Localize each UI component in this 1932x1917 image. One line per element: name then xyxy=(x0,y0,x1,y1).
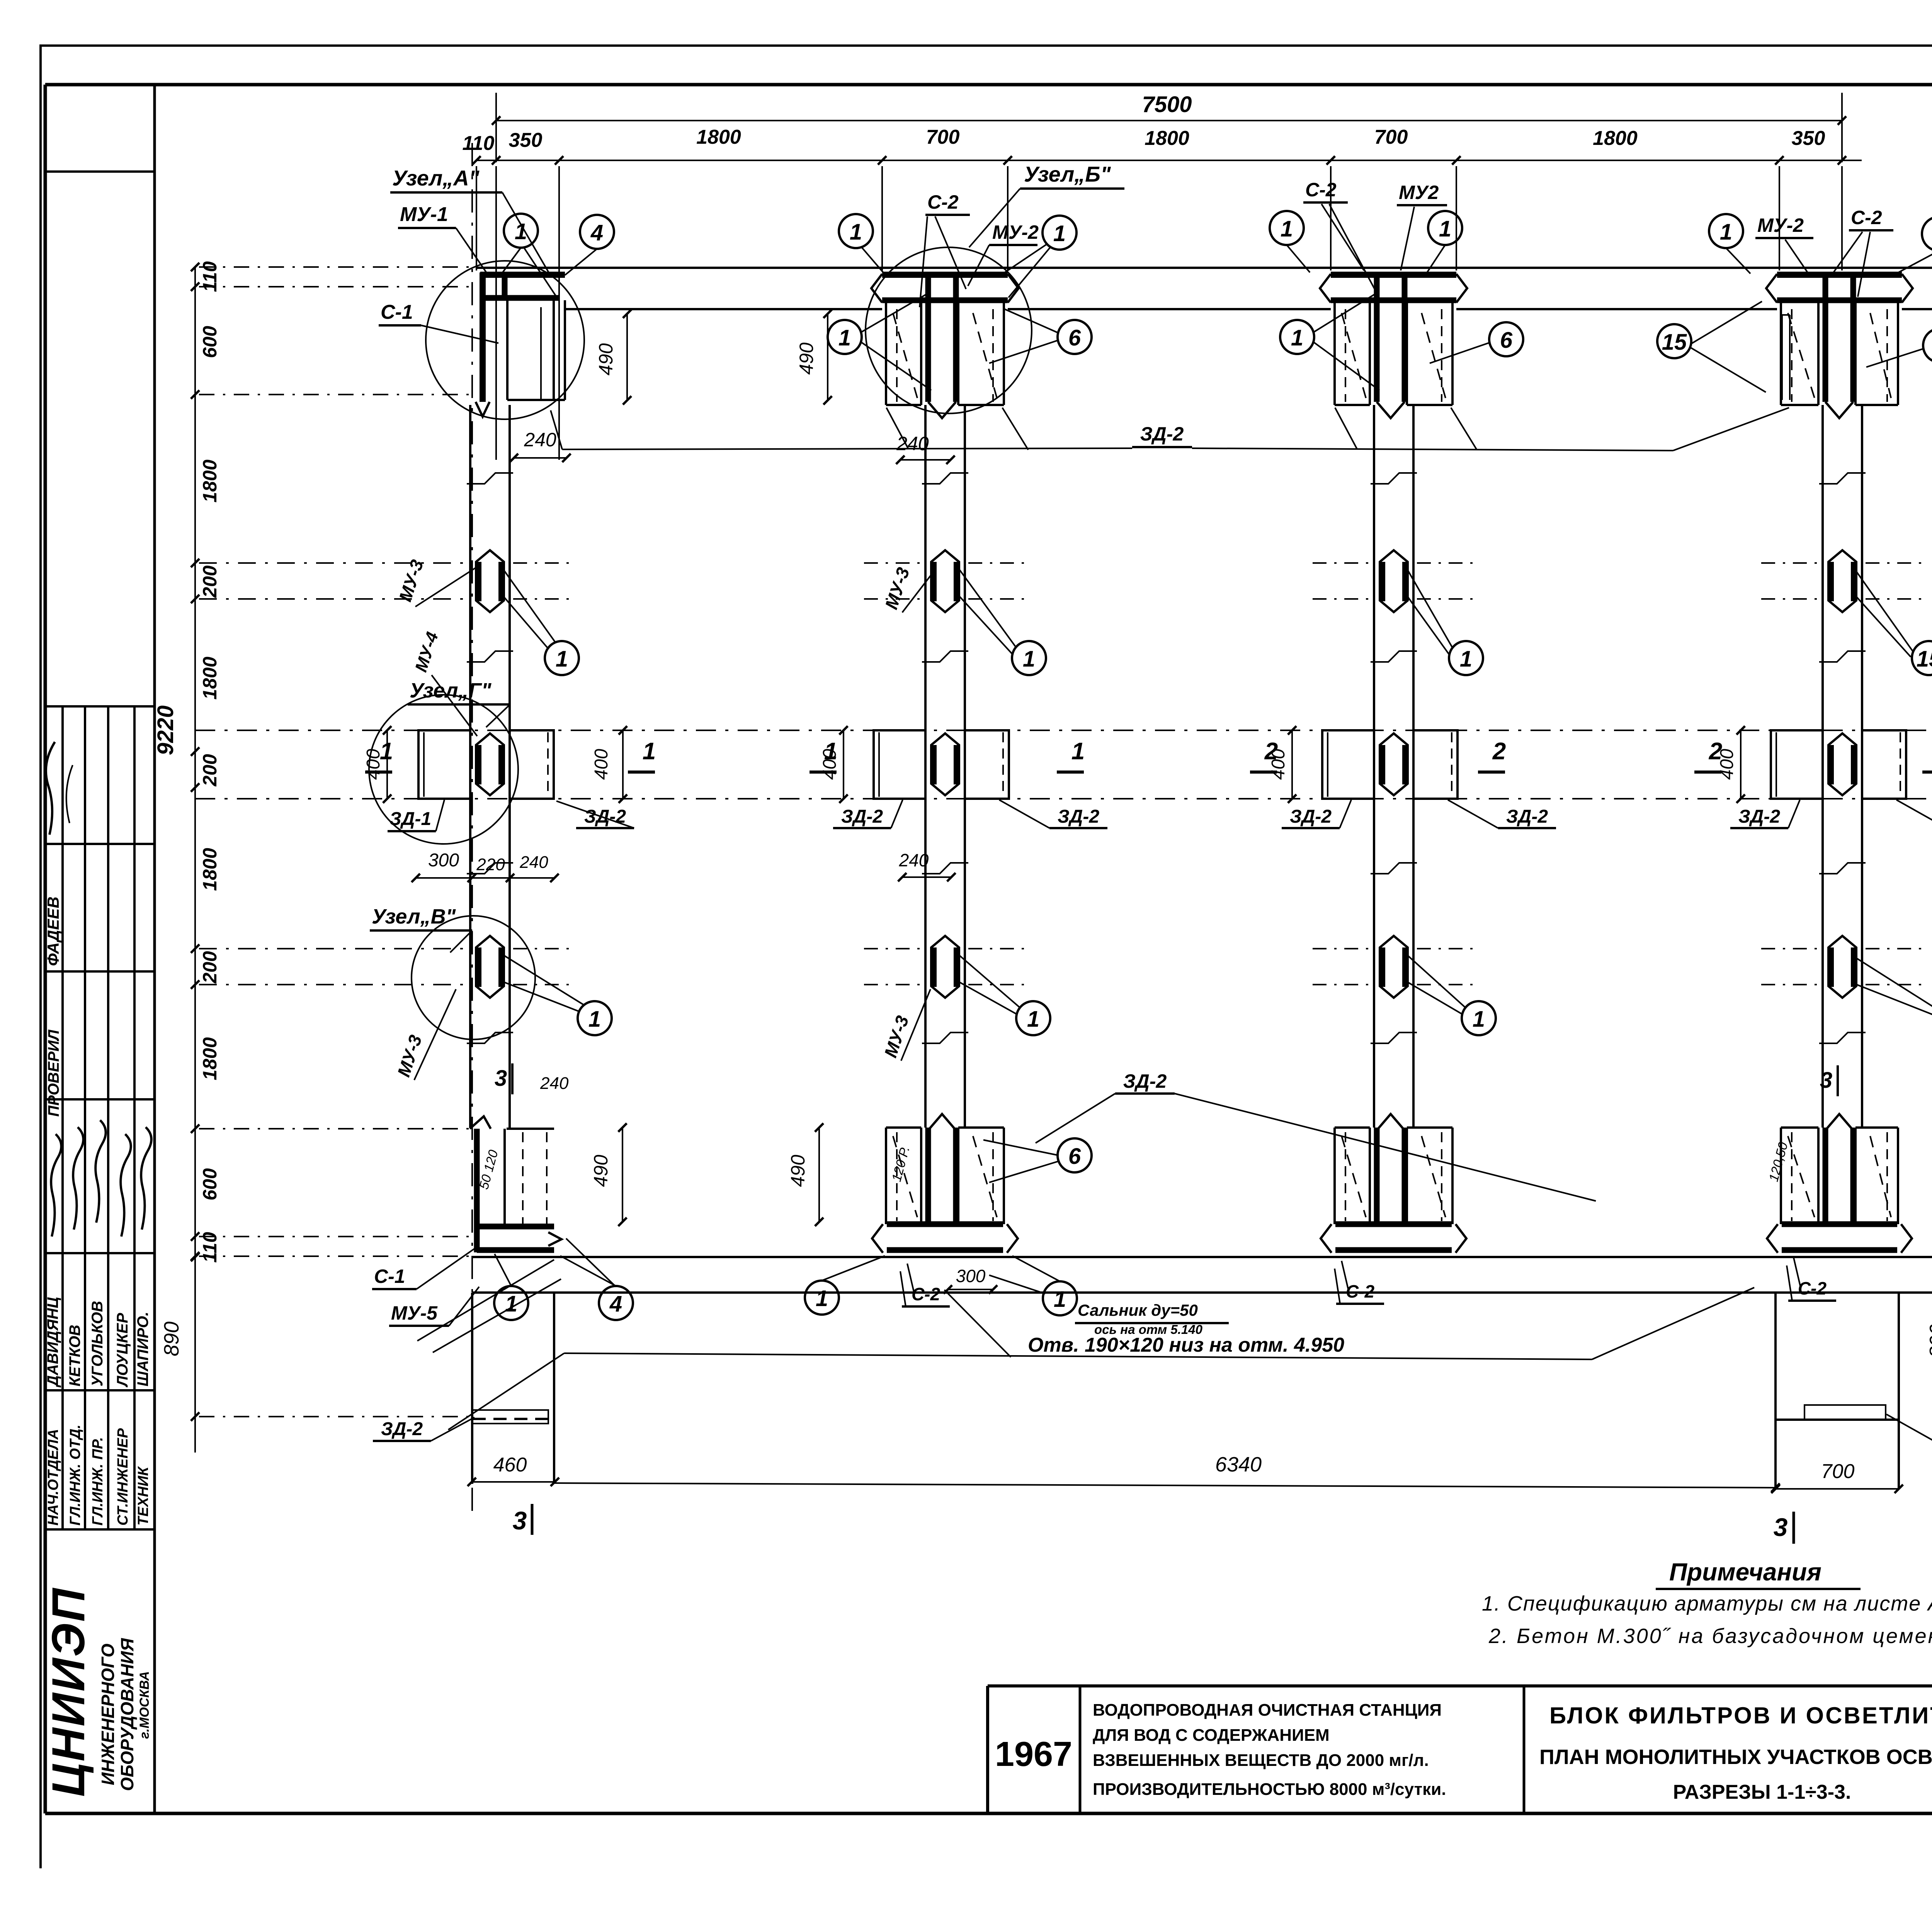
svg-text:ЗД-2: ЗД-2 xyxy=(841,806,883,827)
C-2 label wall4 xyxy=(1833,207,1893,297)
svg-text:ВЗВЕШЕННЫХ ВЕЩЕСТВ ДО 2000 мг: ВЗВЕШЕННЫХ ВЕЩЕСТВ ДО 2000 мг/л. xyxy=(1093,1751,1429,1770)
svg-text:1: 1 xyxy=(824,738,837,765)
svg-text:4: 4 xyxy=(609,1291,622,1317)
svg-text:Узел„А": Узел„А" xyxy=(392,166,480,190)
callout circle 1 xyxy=(545,641,579,675)
svg-text:С-2: С-2 xyxy=(927,191,959,213)
callout circle 1 xyxy=(1012,641,1046,675)
svg-text:3: 3 xyxy=(495,1066,507,1091)
svg-text:ГЛ.ИНЖ. ПР.: ГЛ.ИНЖ. ПР. xyxy=(90,1437,106,1526)
svg-text:1. Спецификацию арматуры с: 1. Спецификацию арматуры см на листе АС-… xyxy=(1482,1592,1932,1615)
dimension 300 220 240 wall1 mid xyxy=(412,850,559,882)
svg-text:4: 4 xyxy=(590,220,603,245)
svg-text:ЗД-2: ЗД-2 xyxy=(1738,806,1780,827)
uzel B label xyxy=(969,162,1124,247)
svg-text:490: 490 xyxy=(787,1155,809,1187)
C-2 label wall3 xyxy=(1303,179,1378,294)
svg-text:ПРОВЕРИЛ: ПРОВЕРИЛ xyxy=(45,1029,62,1117)
C-2 label wall2 xyxy=(920,191,970,307)
svg-text:ЗД-2: ЗД-2 xyxy=(381,1419,423,1439)
diamond nodes row 1 xyxy=(476,550,1856,612)
wall 3 bottom head detail xyxy=(1321,1114,1466,1253)
dimension 6340 xyxy=(555,1453,1780,1492)
left strip signature table xyxy=(45,706,155,1529)
wall 4 head inner plate xyxy=(1782,315,1790,400)
MU-3 label wall1 row2 xyxy=(393,989,456,1080)
svg-text:Узел„Г": Узел„Г" xyxy=(410,679,492,702)
svg-text:2. Бетон М.300˝ на базуса: 2. Бетон М.300˝ на базусадочном цементе xyxy=(1488,1624,1932,1648)
wall 1 top head detail MU-1 xyxy=(476,272,565,417)
C-2 labels bottom heads xyxy=(900,1258,1836,1306)
MU-2 label wall3 xyxy=(1397,182,1447,270)
MU-3 label wall2 row1 xyxy=(881,565,930,612)
svg-text:6: 6 xyxy=(1500,328,1513,353)
svg-text:1: 1 xyxy=(1054,1287,1066,1312)
small 120 50 labels bottom heads xyxy=(476,1141,1791,1191)
svg-text:890: 890 xyxy=(1926,1324,1932,1358)
svg-text:1: 1 xyxy=(850,219,862,245)
notes primechaniya xyxy=(1482,1558,1932,1648)
svg-text:ГЛ.ИНЖ. ОТД.: ГЛ.ИНЖ. ОТД. xyxy=(67,1425,83,1526)
long leader lines bottom xyxy=(448,1288,1754,1430)
svg-text:1: 1 xyxy=(1053,221,1066,246)
svg-text:240: 240 xyxy=(524,429,556,451)
second row leaders xyxy=(861,294,1924,392)
callout circle 15 xyxy=(1657,324,1691,358)
svg-text:ВОДОПРОВОДНАЯ ОЧИСТНАЯ СТАНЦИЯ: ВОДОПРОВОДНАЯ ОЧИСТНАЯ СТАНЦИЯ xyxy=(1093,1701,1442,1720)
svg-text:Отв. 190×120 низ на отм. 4.9: Отв. 190×120 низ на отм. 4.950 xyxy=(1028,1334,1344,1356)
otverstie note xyxy=(1028,1334,1344,1356)
ZD-1 label xyxy=(388,800,444,831)
ZD-2 label bottom wall4 xyxy=(1886,1414,1932,1452)
callout circle 1 xyxy=(1922,217,1932,251)
wall 3 top head detail xyxy=(1320,274,1467,418)
callout circle 1 xyxy=(578,1001,612,1035)
svg-text:110: 110 xyxy=(463,132,495,155)
wall 4 bottom head detail xyxy=(1767,1114,1912,1253)
dimension 460 xyxy=(468,1454,559,1486)
dimension 300 wall2 bottom xyxy=(944,1266,997,1294)
dimension 7500 overall xyxy=(492,92,1846,162)
MU-5 label bottom xyxy=(389,1287,479,1326)
callout circle 1 xyxy=(1709,214,1743,248)
svg-text:1800: 1800 xyxy=(1145,127,1189,150)
svg-text:350: 350 xyxy=(509,129,543,151)
svg-text:300: 300 xyxy=(428,850,459,871)
wall break symbols xyxy=(467,473,1866,1043)
svg-text:БЛОК ФИЛЬТРОВ И ОСВЕТЛИТЕЛЕЙ.: БЛОК ФИЛЬТРОВ И ОСВЕТЛИТЕЛЕЙ. xyxy=(1549,1703,1932,1728)
left strip institute cell CNIIEP xyxy=(43,1587,152,1797)
callout circle 1 xyxy=(1270,211,1304,245)
svg-text:350: 350 xyxy=(1792,127,1825,150)
svg-text:490: 490 xyxy=(590,1155,612,1187)
top segment dimension chain 110-350-1800-700-1800-700-1800-350 xyxy=(463,126,1862,460)
svg-text:ЗД-2: ЗД-2 xyxy=(1123,1070,1167,1092)
svg-text:ФАДЕЕВ: ФАДЕЕВ xyxy=(44,896,62,966)
uzel G circle wall1 mid xyxy=(369,695,518,844)
svg-text:ТЕХНИК: ТЕХНИК xyxy=(135,1466,151,1526)
svg-text:200: 200 xyxy=(199,951,221,984)
svg-text:1: 1 xyxy=(380,738,393,765)
svg-text:С-2: С-2 xyxy=(1346,1281,1375,1301)
svg-text:ЗД-2: ЗД-2 xyxy=(1506,806,1548,827)
svg-text:2: 2 xyxy=(1709,738,1722,765)
callout circle 1 xyxy=(1016,1001,1050,1035)
svg-text:ЗД-1: ЗД-1 xyxy=(389,809,431,829)
svg-text:1: 1 xyxy=(556,646,568,672)
svg-text:1: 1 xyxy=(1027,1007,1039,1032)
svg-text:240: 240 xyxy=(519,853,548,872)
svg-text:НАЧ.ОТДЕЛА: НАЧ.ОТДЕЛА xyxy=(45,1429,61,1526)
dimension 240 below wall1 head xyxy=(510,429,571,462)
svg-text:МУ2: МУ2 xyxy=(1399,182,1439,203)
callout circle 1 xyxy=(494,1286,528,1320)
svg-text:МУ-2: МУ-2 xyxy=(992,221,1039,243)
dimension chain 9220 left xyxy=(153,261,221,1453)
svg-text:Узел„В": Узел„В" xyxy=(372,905,456,928)
top row leaders xyxy=(502,243,1932,298)
svg-text:Примечания: Примечания xyxy=(1669,1558,1821,1586)
callout circle 1 xyxy=(1043,1281,1077,1315)
C-1 label bottom xyxy=(372,1248,475,1289)
salnik note xyxy=(1075,1301,1229,1337)
svg-text:1: 1 xyxy=(838,325,851,350)
svg-text:ОБОРУДОВАНИЯ: ОБОРУДОВАНИЯ xyxy=(117,1638,137,1791)
MU-3 label wall2 row2 xyxy=(880,989,930,1061)
svg-text:ЗД-2: ЗД-2 xyxy=(1290,806,1332,827)
svg-text:ПЛАН МОНОЛИТНЫХ УЧАСТКОВ ОСВЕТ: ПЛАН МОНОЛИТНЫХ УЧАСТКОВ ОСВЕТЛИТЕЛЕЙ xyxy=(1539,1745,1932,1769)
dimension 240 below wall1 mid xyxy=(514,867,566,878)
outer scan border top xyxy=(41,44,1932,47)
right edge 890 dim xyxy=(1926,1210,1932,1420)
MU-2 label wall2 xyxy=(968,221,1039,286)
svg-text:6340: 6340 xyxy=(1215,1453,1262,1476)
svg-text:1: 1 xyxy=(816,1286,828,1311)
callout circle 1 xyxy=(805,1281,839,1315)
svg-text:МУ-1: МУ-1 xyxy=(400,203,448,226)
row dashes around diamonds xyxy=(513,563,1923,985)
wall 1 bottom head detail MU-5 xyxy=(470,1116,561,1252)
title block project description xyxy=(1093,1701,1446,1799)
uzel V label xyxy=(370,905,472,953)
svg-text:ДАВИДЯНЦ: ДАВИДЯНЦ xyxy=(44,1297,61,1388)
callout circle 6 xyxy=(1058,320,1092,354)
svg-text:1: 1 xyxy=(1720,219,1732,245)
C-1 label top xyxy=(379,301,498,343)
dimension 490 bottom wall1 xyxy=(590,1123,627,1226)
svg-text:3: 3 xyxy=(513,1506,527,1535)
svg-text:ИНЖЕНЕРНОГО: ИНЖЕНЕРНОГО xyxy=(98,1643,118,1785)
dimension 490 top wall1 xyxy=(595,310,631,405)
section mark 3 bottom mid xyxy=(1774,1512,1794,1544)
svg-text:3: 3 xyxy=(1774,1513,1788,1541)
svg-text:6: 6 xyxy=(1068,325,1081,350)
callout circle 4 xyxy=(599,1286,633,1320)
wall 1 uzel A circle xyxy=(426,261,584,419)
svg-text:1800: 1800 xyxy=(199,459,221,502)
dimension 490 top wall2 xyxy=(796,310,832,405)
wall 4 top head detail xyxy=(1766,274,1913,418)
section mark 3 top near wall1 xyxy=(495,1063,569,1094)
svg-text:1800: 1800 xyxy=(1593,127,1638,150)
dimension 490 bottom wall2 xyxy=(787,1123,823,1226)
wall vertical lines with breaks xyxy=(470,405,1862,1128)
svg-text:15: 15 xyxy=(1917,646,1932,672)
dimension 700 xyxy=(1771,1460,1903,1493)
callout circle 6 xyxy=(1058,1138,1092,1172)
top beam inner edge segments xyxy=(565,308,1932,310)
svg-text:600: 600 xyxy=(199,1168,221,1201)
diagonal leaders from wall1 bottom to label area xyxy=(417,1260,561,1352)
ZD-2 labels mid row xyxy=(556,800,1932,828)
left chain extension dashes xyxy=(199,267,469,1417)
svg-text:1800: 1800 xyxy=(199,657,221,699)
MU-1 label xyxy=(398,203,488,274)
svg-text:С-2: С-2 xyxy=(1305,179,1337,201)
svg-text:Сальник ду=50: Сальник ду=50 xyxy=(1078,1301,1198,1319)
callout circle 1 xyxy=(839,214,873,248)
svg-text:ЗД-2: ЗД-2 xyxy=(1058,806,1099,827)
svg-text:9220: 9220 xyxy=(153,705,178,755)
title block frame xyxy=(988,1686,1932,1813)
svg-text:890: 890 xyxy=(160,1322,183,1356)
svg-text:1800: 1800 xyxy=(199,848,221,891)
callout circle 6 xyxy=(1489,322,1523,356)
callout circle 15 xyxy=(1912,641,1932,675)
svg-text:С-2: С-2 xyxy=(1851,207,1882,228)
svg-text:1: 1 xyxy=(1439,216,1451,242)
callout circle 4 xyxy=(580,215,614,249)
ZD-2 label bottom wall1 xyxy=(373,1417,474,1441)
svg-text:2: 2 xyxy=(1264,738,1278,765)
svg-text:ЗД-2: ЗД-2 xyxy=(1140,423,1184,445)
svg-text:1: 1 xyxy=(643,738,656,765)
uzel V circle wall1 row2 xyxy=(412,916,535,1039)
wall 1 lower stub 460 wide xyxy=(472,1293,554,1484)
MU-3 label wall1 row1 xyxy=(395,557,475,607)
bottom beam upper edge xyxy=(472,1256,1932,1258)
ZD-2 label top beam xyxy=(551,408,1789,451)
svg-text:1800: 1800 xyxy=(696,126,741,148)
left strip top cell line xyxy=(45,170,155,173)
callout circle 1 xyxy=(1280,320,1314,354)
left title strip divider xyxy=(153,85,156,1813)
svg-text:С-1: С-1 xyxy=(381,301,413,323)
svg-text:ПРОИЗВОДИТЕЛЬНОСТЬЮ 8000 м³/су: ПРОИЗВОДИТЕЛЬНОСТЬЮ 8000 м³/сутки. xyxy=(1093,1780,1446,1799)
svg-text:200: 200 xyxy=(199,754,221,787)
bottom beam lower edge xyxy=(472,1291,1932,1294)
svg-text:С-2: С-2 xyxy=(912,1284,940,1304)
title block sheet title xyxy=(1539,1703,1932,1803)
left strip signatures scribble xyxy=(46,742,151,1237)
top beam outer edge xyxy=(476,267,1932,269)
dimension 400 labels mid row xyxy=(363,726,1745,803)
svg-text:г.МОСКВА: г.МОСКВА xyxy=(137,1671,152,1739)
callout circle 1 xyxy=(1043,216,1077,250)
svg-text:Узел„Б": Узел„Б" xyxy=(1024,162,1111,186)
dimension 240 wall2 mid xyxy=(898,850,956,881)
svg-text:1: 1 xyxy=(588,1007,601,1032)
svg-text:700: 700 xyxy=(1821,1460,1855,1483)
section mark 3 bottom left xyxy=(513,1504,532,1535)
dimension 240 below wall2 head xyxy=(896,433,955,464)
MU-2 label wall4 xyxy=(1755,214,1813,274)
wall 2 top head detail xyxy=(871,274,1019,418)
mid row axis dashed lines xyxy=(195,730,1932,731)
svg-text:1: 1 xyxy=(515,219,527,244)
svg-text:15: 15 xyxy=(1662,330,1687,355)
MU-4 label xyxy=(412,630,477,736)
svg-text:2: 2 xyxy=(1492,738,1506,765)
svg-text:ШАПИРО.: ШАПИРО. xyxy=(134,1312,151,1387)
svg-text:1: 1 xyxy=(505,1291,517,1317)
left strip rotated headers xyxy=(44,896,151,1526)
svg-text:1967: 1967 xyxy=(995,1735,1072,1774)
svg-text:7500: 7500 xyxy=(1142,92,1192,117)
svg-text:240: 240 xyxy=(540,1074,569,1093)
svg-text:С-1: С-1 xyxy=(374,1266,405,1287)
svg-text:240: 240 xyxy=(899,850,929,870)
svg-text:460: 460 xyxy=(493,1454,527,1476)
svg-text:490: 490 xyxy=(595,343,617,376)
svg-text:3: 3 xyxy=(1820,1068,1832,1093)
row1 leaders xyxy=(502,568,1913,657)
section mark 3 top near wall4 xyxy=(1820,1065,1838,1096)
ZD-2 label bottom beam xyxy=(1036,1070,1596,1201)
svg-text:700: 700 xyxy=(1374,126,1408,148)
outer scan border left xyxy=(39,44,42,1868)
bottom row leaders xyxy=(495,1238,1060,1294)
callout circle 1 xyxy=(1428,211,1462,245)
svg-text:200: 200 xyxy=(199,565,221,598)
svg-text:700: 700 xyxy=(926,126,960,148)
svg-text:1: 1 xyxy=(1281,216,1293,242)
mid row flanges and diamonds xyxy=(418,730,554,799)
svg-text:490: 490 xyxy=(796,342,817,375)
row2 leaders xyxy=(502,954,1932,1017)
svg-text:600: 600 xyxy=(199,326,221,358)
svg-text:СТ.ИНЖЕНЕР: СТ.ИНЖЕНЕР xyxy=(115,1428,131,1526)
svg-text:1: 1 xyxy=(1460,646,1472,672)
svg-text:МУ-2: МУ-2 xyxy=(1757,214,1804,236)
callout circle 6 xyxy=(1923,328,1932,362)
svg-text:УГОЛЬКОВ: УГОЛЬКОВ xyxy=(89,1301,106,1386)
svg-text:1: 1 xyxy=(1291,325,1303,350)
svg-text:220: 220 xyxy=(476,855,505,874)
axis dash-dot vertical wall 1 xyxy=(471,143,473,1519)
svg-text:6: 6 xyxy=(1068,1144,1081,1169)
svg-text:ДЛЯ ВОД С СОДЕРЖАНИЕМ: ДЛЯ ВОД С СОДЕРЖАНИЕМ xyxy=(1093,1726,1330,1745)
svg-text:С-2: С-2 xyxy=(1798,1278,1827,1298)
uzel A label xyxy=(390,166,549,272)
svg-text:МУ-5: МУ-5 xyxy=(391,1302,438,1324)
wall 4 lower stub 700 wide xyxy=(1776,1293,1899,1489)
callout circle 1 xyxy=(828,320,862,354)
uzel G label xyxy=(408,679,510,727)
svg-text:1: 1 xyxy=(1023,646,1035,672)
callout circle 1 xyxy=(504,214,538,248)
svg-text:ЛОУЦКЕР: ЛОУЦКЕР xyxy=(114,1313,131,1388)
wall 2 uzel B circle xyxy=(866,247,1032,413)
svg-text:400: 400 xyxy=(591,749,612,780)
svg-text:1: 1 xyxy=(1473,1007,1485,1032)
svg-text:300: 300 xyxy=(956,1266,986,1286)
svg-text:1800: 1800 xyxy=(199,1037,221,1080)
wall 2 bottom head detail xyxy=(872,1114,1018,1253)
svg-text:ЦНИИЭП: ЦНИИЭП xyxy=(43,1587,94,1797)
callout circle 1 xyxy=(1449,641,1483,675)
svg-text:КЕТКОВ: КЕТКОВ xyxy=(66,1325,83,1386)
diamond nodes row 2 xyxy=(476,936,1856,998)
svg-text:РАЗРЕЗЫ 1-1÷3-3.: РАЗРЕЗЫ 1-1÷3-3. xyxy=(1673,1781,1851,1803)
section marks mid row xyxy=(365,738,1932,772)
svg-text:1: 1 xyxy=(1071,738,1085,765)
callout circle 1 xyxy=(1462,1001,1496,1035)
